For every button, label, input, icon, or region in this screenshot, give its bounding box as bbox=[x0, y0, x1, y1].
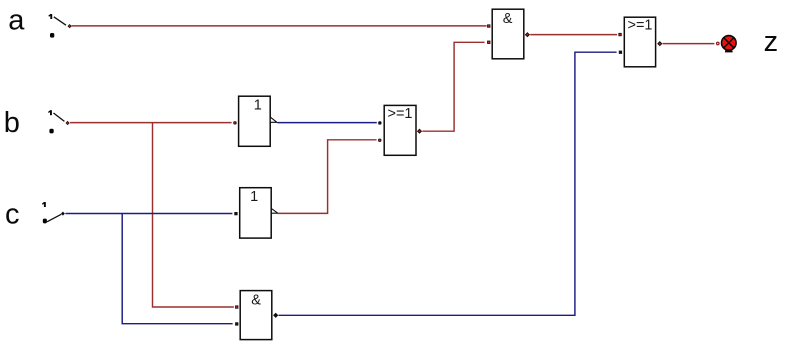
AND gate U4 input pin 1 bbox=[487, 24, 490, 27]
OR gate U3 input pin 1 bbox=[378, 121, 381, 124]
NOT gate U1 inversion flag bbox=[270, 117, 277, 122]
wire c: switch c to NOT2 input bbox=[65, 213, 232, 215]
OR gate U6 output pin bbox=[657, 41, 662, 46]
wire: NOT1 output to OR1 input 1 bbox=[277, 122, 376, 124]
node z label bbox=[764, 26, 779, 58]
OR gate U3 output pin bbox=[417, 129, 422, 134]
wire b: switch b to NOT1 input bbox=[70, 122, 232, 124]
wire: final OR output to LED z bbox=[663, 43, 715, 45]
svg-text:z: z bbox=[764, 26, 779, 58]
switch a output terminal bbox=[68, 24, 72, 28]
OR gate U3 (IEC ">=1") bbox=[384, 105, 416, 155]
AND gate U5 output pin bbox=[273, 313, 278, 318]
NOT gate U2 (IEC "1") bbox=[240, 188, 272, 238]
svg-text:>=1: >=1 bbox=[388, 106, 413, 122]
wire: AND1 output to final OR input 1 bbox=[530, 34, 617, 36]
switch c bbox=[42, 202, 61, 223]
AND gate U5 input pin 2 bbox=[235, 322, 238, 325]
node a label bbox=[8, 5, 25, 37]
svg-text:&: & bbox=[251, 292, 261, 308]
switch a bbox=[49, 14, 66, 38]
svg-text:a: a bbox=[8, 5, 25, 37]
wire b branch: junction at x=152.5 down to AND2 input 1 bbox=[153, 123, 234, 307]
OR gate U6 input pin 2 bbox=[619, 51, 622, 54]
NOT gate U2 input pin bbox=[234, 212, 237, 215]
AND gate U5 (IEC "&") bottom bbox=[240, 291, 272, 340]
wire a: switch a to AND1 input 1 bbox=[72, 25, 487, 27]
switch b bbox=[48, 110, 64, 133]
NOT gate U1 input pin bbox=[233, 121, 236, 124]
node b label bbox=[4, 107, 20, 139]
AND gate U4 (IEC "&") bbox=[492, 9, 524, 59]
svg-text:1: 1 bbox=[250, 189, 258, 205]
svg-text:b: b bbox=[4, 107, 20, 139]
OR gate U3 input pin 2 bbox=[378, 139, 381, 142]
NOT gate U2 inversion flag bbox=[271, 209, 278, 214]
svg-text:&: & bbox=[503, 11, 513, 27]
wire c branch: junction at x=122 down to AND2 input 2 bbox=[122, 214, 232, 324]
AND gate U4 input pin 2 bbox=[487, 41, 490, 44]
OR gate U6 (IEC ">=1") final bbox=[624, 17, 655, 67]
svg-text:1: 1 bbox=[254, 97, 262, 113]
AND gate U5 input pin 1 bbox=[235, 305, 238, 308]
svg-text:c: c bbox=[5, 198, 20, 230]
node c label bbox=[5, 198, 20, 230]
svg-text:>=1: >=1 bbox=[628, 17, 653, 33]
wire: NOT2 output to OR1 input 2 bbox=[277, 140, 376, 214]
OR gate U6 input pin 1 bbox=[618, 33, 621, 36]
LED z (lamp, on) bbox=[722, 36, 737, 53]
switch c output terminal bbox=[61, 212, 65, 216]
NOT gate U1 (IEC "1") bbox=[239, 96, 271, 146]
AND gate U4 output pin bbox=[525, 32, 530, 37]
wire: OR1 output up to AND1 input 2 bbox=[422, 42, 484, 131]
wire: AND2 output up to final OR input 2 bbox=[279, 52, 617, 315]
LED z input pin bbox=[717, 42, 720, 45]
switch b output terminal bbox=[66, 121, 70, 125]
